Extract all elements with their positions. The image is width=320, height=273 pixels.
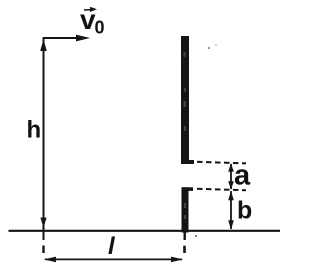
dash below ground left	[42, 246, 44, 254]
h dimension vertical line	[43, 38, 45, 240]
l dimension arrow	[45, 258, 182, 260]
dashed line at slot top	[197, 162, 246, 164]
svg-text:h: h	[27, 117, 42, 144]
scan speck 2	[215, 44, 217, 46]
scan speck 3	[195, 235, 197, 237]
h top arrowhead	[40, 39, 47, 51]
wall lower segment	[182, 187, 189, 232]
svg-text:l: l	[108, 233, 116, 260]
wall lower segment top foot	[182, 187, 194, 191]
svg-text:0: 0	[95, 18, 105, 38]
wall lower segment below-ground stub	[183, 232, 185, 240]
scan speck 1	[208, 47, 210, 49]
label v0 vector arrow hat	[84, 9, 94, 12]
wall upper segment bottom foot	[181, 160, 194, 164]
svg-text:b: b	[237, 197, 252, 225]
svg-text:a: a	[234, 160, 251, 192]
h bottom arrowhead	[40, 218, 46, 229]
dashed line at slot bottom	[197, 189, 246, 190]
b dimension arrow	[230, 191, 232, 229]
dash below ground right	[183, 246, 186, 253]
v0 velocity arrow	[43, 37, 82, 39]
a dimension arrow	[230, 164, 232, 189]
ground line	[9, 230, 281, 232]
wall upper segment	[181, 36, 189, 160]
